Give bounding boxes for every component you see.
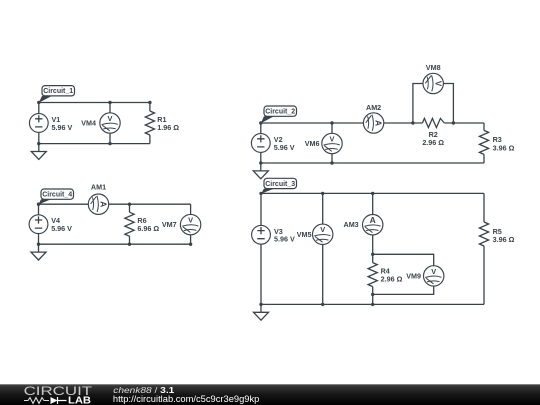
wire VM6 column — [331, 123, 333, 163]
svg-text:VM5: VM5 — [297, 230, 312, 239]
voltmeter VM8 — [423, 63, 443, 94]
node V4 bottom — [37, 243, 40, 246]
wire node to VM9 top — [373, 254, 434, 265]
voltmeter VM7 — [162, 214, 201, 234]
wire top rail C4 — [39, 203, 191, 205]
wire top rail C2 left — [261, 122, 413, 124]
voltage source V2 — [251, 134, 294, 153]
svg-text:2.96 Ω: 2.96 Ω — [381, 275, 403, 284]
node VM5 top — [321, 192, 324, 195]
node V1 bottom — [37, 142, 40, 145]
node R2 left — [411, 121, 414, 124]
wire V1 column — [38, 103, 40, 144]
node R6 top — [128, 203, 131, 206]
node V2 bottom — [259, 161, 262, 164]
voltage source V3 — [252, 225, 295, 244]
logo resistor squiggle — [24, 398, 49, 404]
svg-text:http://circuitlab.com/c5c9cr3e: http://circuitlab.com/c5c9cr3e9g9kp — [113, 394, 260, 404]
svg-text:Circuit_3: Circuit_3 — [265, 181, 295, 188]
wire AM3 column — [372, 193, 374, 254]
node AM3 bottom junction — [371, 253, 374, 256]
node VM4 top — [108, 101, 111, 104]
ground C3 — [254, 304, 269, 320]
svg-text:3.96 Ω: 3.96 Ω — [493, 143, 515, 152]
resistor R5 — [479, 193, 514, 304]
node A4 top — [37, 203, 40, 206]
node VM4 bottom — [108, 142, 111, 145]
node A3 top — [259, 192, 262, 195]
svg-text:VM6: VM6 — [305, 139, 320, 148]
svg-text:5.96 V: 5.96 V — [52, 123, 73, 132]
svg-text:Circuit_1: Circuit_1 — [43, 88, 73, 95]
node R6 bottom — [128, 243, 131, 246]
svg-text:VM8: VM8 — [426, 63, 441, 72]
svg-text:VM9: VM9 — [406, 271, 421, 280]
wire VM9 bottom to R4 bottom — [373, 286, 434, 294]
wire V4 column — [38, 204, 40, 244]
voltage source V1 — [29, 114, 72, 133]
wire top rail C3 — [261, 192, 484, 194]
svg-text:AM3: AM3 — [344, 220, 359, 229]
svg-text:5.96 V: 5.96 V — [51, 224, 72, 233]
resistor R2 — [413, 118, 454, 147]
footer bar — [0, 384, 540, 405]
node R4 rail — [371, 303, 374, 306]
svg-text:AM1: AM1 — [91, 183, 106, 192]
node VM7 bottom — [189, 243, 192, 246]
label Circuit_4 — [39, 189, 74, 205]
ammeter AM1 — [88, 183, 108, 215]
svg-text:3.96 Ω: 3.96 Ω — [493, 235, 515, 244]
svg-text:VM4: VM4 — [81, 119, 96, 128]
node VM6 top — [330, 121, 333, 124]
resistor R6 — [125, 204, 159, 244]
node R4 bottom junction — [371, 293, 374, 296]
node VM5 bottom — [321, 303, 324, 306]
resistor R4 — [368, 254, 402, 294]
node VM6 bottom — [330, 161, 333, 164]
ground C1 — [31, 144, 46, 160]
resistor R1 — [145, 103, 179, 144]
node R1 top — [148, 101, 151, 104]
voltmeter VM5 — [297, 224, 333, 244]
voltmeter VM4 — [81, 113, 120, 133]
label Circuit_1 — [39, 86, 75, 103]
wire VM7 column — [190, 204, 192, 244]
wire VM4 column — [109, 103, 111, 144]
wire top rail C2 right — [453, 122, 484, 124]
wire R4 bottom to rail — [372, 294, 374, 304]
wire bottom rail C2 — [261, 162, 484, 164]
voltmeter VM6 — [305, 133, 342, 153]
wire V2 column — [260, 123, 262, 163]
wire bottom rail C3 — [261, 303, 484, 305]
svg-text:LAB: LAB — [68, 395, 92, 405]
node A1 top — [37, 101, 40, 104]
logo diode — [51, 397, 58, 404]
resistor R3 — [479, 123, 514, 163]
ground C2 — [253, 163, 268, 179]
svg-text:AM2: AM2 — [366, 103, 381, 112]
svg-text:2.96 Ω: 2.96 Ω — [422, 138, 444, 147]
svg-text:Circuit_4: Circuit_4 — [42, 192, 72, 199]
svg-text:1.96 Ω: 1.96 Ω — [157, 123, 179, 132]
wire V3 column — [260, 193, 262, 304]
ground C4 — [31, 244, 46, 260]
node AM3 top — [371, 192, 374, 195]
svg-text:Circuit_2: Circuit_2 — [265, 109, 295, 116]
wire bottom rail C1 — [39, 143, 150, 145]
svg-text:6.96 Ω: 6.96 Ω — [137, 224, 159, 233]
wire VM8 loop — [413, 84, 454, 124]
svg-text:VM7: VM7 — [162, 220, 177, 229]
svg-text:5.96 V: 5.96 V — [274, 143, 295, 152]
label Circuit_2 — [261, 106, 297, 123]
wire top rail C1 — [39, 102, 150, 104]
ammeter AM2 — [363, 103, 383, 133]
svg-text:5.96 V: 5.96 V — [274, 235, 295, 244]
wire bottom rail C4 — [39, 243, 191, 245]
node V3 bottom — [259, 303, 262, 306]
voltmeter VM9 — [406, 266, 444, 286]
voltage source V4 — [29, 215, 72, 234]
ammeter AM3 — [344, 215, 383, 235]
node R2 right — [452, 121, 455, 124]
node A2 top — [259, 121, 262, 124]
label Circuit_3 — [261, 178, 297, 193]
wire VM5 column — [322, 193, 324, 304]
